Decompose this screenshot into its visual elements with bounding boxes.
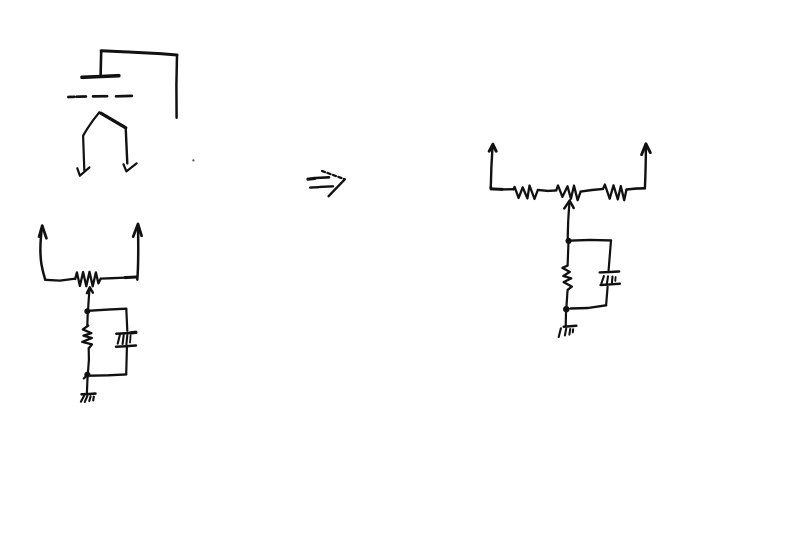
wire bottom across	[91, 374, 127, 375]
wire resistor to bottom node	[567, 290, 568, 306]
wire R3 to right terminal	[627, 188, 645, 189]
wire to ground	[565, 313, 567, 327]
wiper arrow (tap)	[87, 287, 93, 308]
ground	[559, 326, 577, 337]
speck (scan artifact)	[192, 159, 194, 161]
node (junction dot top)	[566, 238, 572, 244]
wire resistor to bottom node	[87, 348, 90, 371]
wire R2 to R3	[581, 189, 603, 192]
arrow up-right terminal	[133, 224, 141, 280]
resistor R (vertical zigzag)	[82, 326, 92, 349]
wire junction to capacitor branch	[90, 309, 126, 311]
wire bottom across	[571, 305, 607, 308]
plate (anode) bar	[82, 76, 119, 78]
resistor R1 (left zigzag)	[513, 186, 538, 199]
wire junction to capacitor branch	[572, 239, 611, 242]
wire to right terminal	[101, 277, 137, 279]
resistor R (vertical zigzag)	[562, 266, 572, 290]
wire to R1	[491, 187, 514, 189]
arrow up-left terminal	[39, 226, 46, 280]
wire junction down to resistor	[566, 244, 569, 266]
capacitor C (hatched plates)	[116, 332, 136, 346]
node (junction dot bottom)	[563, 306, 570, 313]
wire capacitor branch down	[126, 309, 127, 331]
arrow up-right terminal	[642, 144, 651, 189]
wire capacitor to bottom	[606, 287, 608, 306]
resistor R3 (right zigzag)	[603, 185, 627, 201]
wire R1 to R2	[538, 190, 556, 191]
capacitor C (hatched plates)	[600, 272, 620, 286]
resistor R2 (middle zigzag)	[556, 185, 580, 200]
grid (dashed line)	[68, 96, 131, 97]
arrow up-left terminal	[489, 144, 496, 187]
ground	[81, 394, 96, 402]
node (junction dot bottom)	[84, 372, 91, 379]
wiper arrow under R2	[564, 201, 573, 240]
potentiometer resistor (horizontal zigzag)	[75, 272, 101, 287]
wire to ground	[86, 378, 89, 393]
wire capacitor to bottom	[125, 348, 128, 375]
wire junction down to resistor	[86, 314, 89, 326]
wire plate lead: up from plate bar, across top, down right side	[101, 51, 177, 118]
wire capacitor branch down	[609, 240, 611, 270]
wire to potentiometer	[45, 279, 75, 281]
node (junction dot top)	[84, 308, 90, 314]
cathode legs	[77, 112, 136, 175]
